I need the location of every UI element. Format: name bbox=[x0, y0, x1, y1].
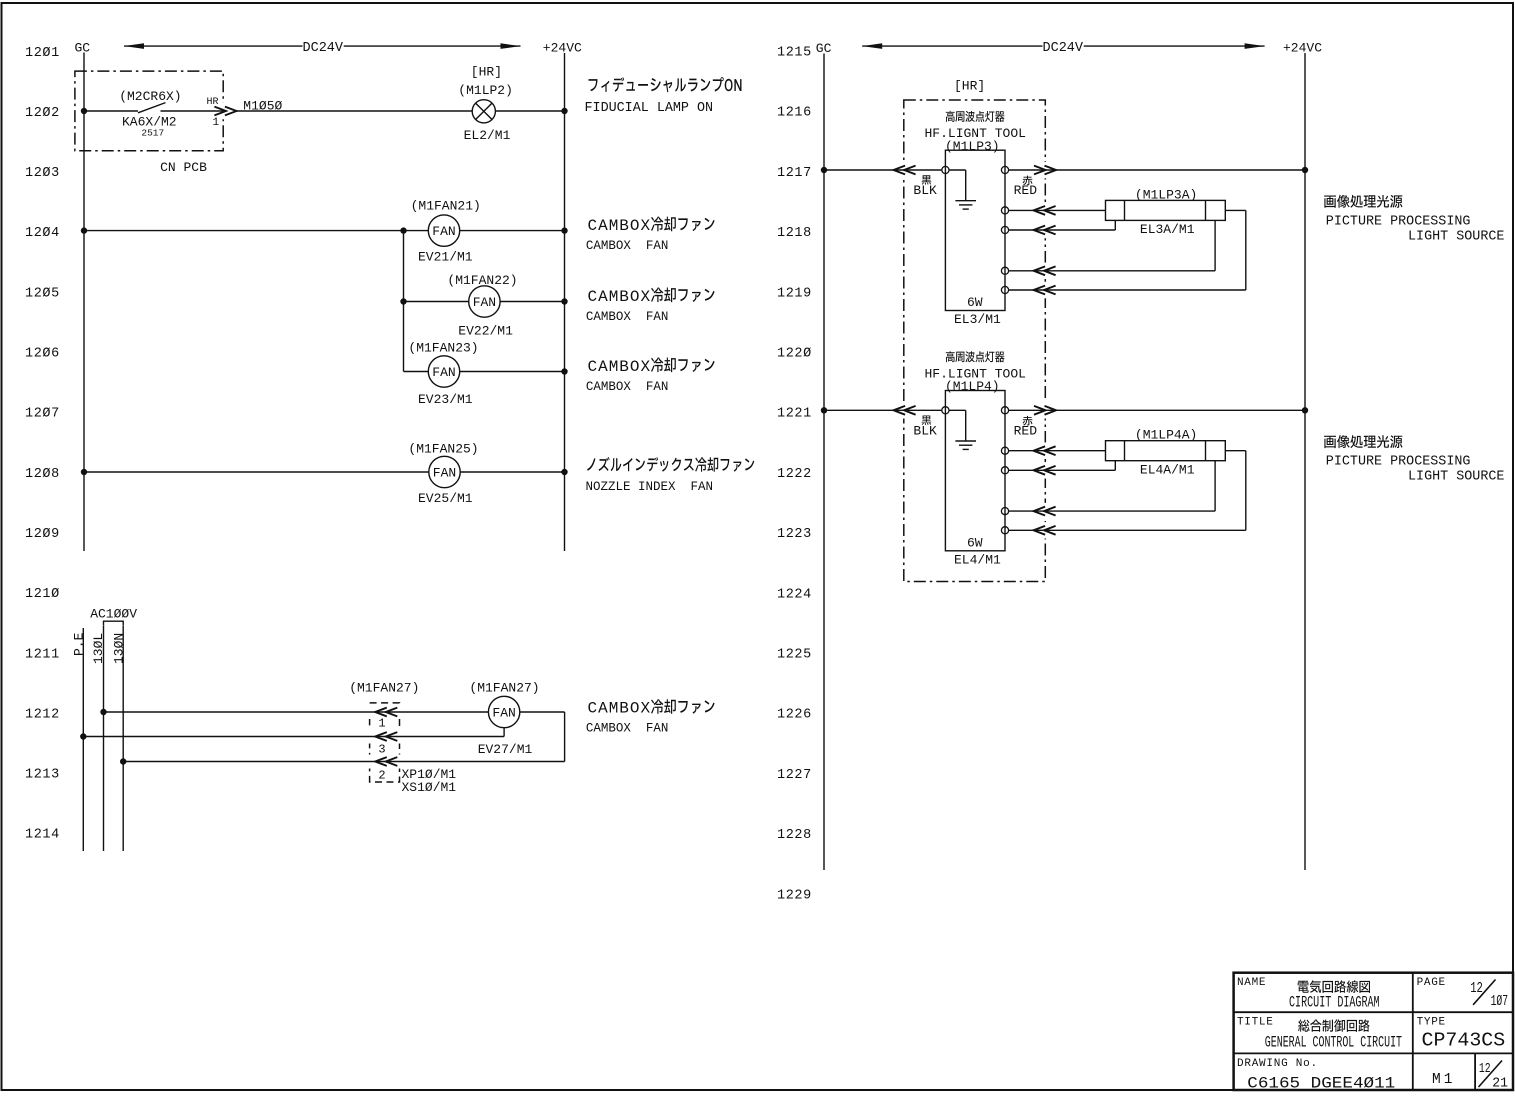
svg-text:12Ø4: 12Ø4 bbox=[25, 226, 60, 241]
label 高周波点灯器 M1LP4 bbox=[946, 351, 1005, 362]
svg-text:(M1FAN22): (M1FAN22) bbox=[447, 273, 517, 288]
HF light tool unit EL3/M1 box bbox=[945, 150, 1005, 310]
svg-text:BLK: BLK bbox=[913, 183, 937, 198]
relay contact KA6X/M2 (M2CR6X) bbox=[138, 103, 166, 113]
svg-text:NAME: NAME bbox=[1237, 977, 1266, 989]
title block 総合制御回路 bbox=[1298, 1019, 1370, 1032]
terminal RED EL3/M1 bbox=[1001, 166, 1008, 173]
svg-text:EL3A/M1: EL3A/M1 bbox=[1140, 222, 1195, 237]
svg-text:21: 21 bbox=[1492, 1076, 1508, 1092]
wire EL3/M1 terminal3 bbox=[1009, 220, 1216, 270]
svg-text:RED: RED bbox=[1014, 183, 1038, 198]
connector XP10/M1 dashed box bbox=[367, 703, 402, 782]
bracket AC100V phase group bbox=[104, 621, 124, 626]
svg-text:12Ø6: 12Ø6 bbox=[25, 347, 60, 362]
svg-text:FAN: FAN bbox=[432, 365, 455, 380]
svg-text:121Ø: 121Ø bbox=[25, 587, 60, 602]
svg-text:EV25/M1: EV25/M1 bbox=[418, 491, 473, 506]
wire EL3/M1 RED to +24VC bus bbox=[1009, 169, 1305, 171]
svg-text:TYPE: TYPE bbox=[1417, 1017, 1446, 1029]
svg-text:1213: 1213 bbox=[25, 768, 60, 783]
svg-text:CAMBOX: CAMBOX bbox=[588, 217, 652, 235]
svg-text:CAMBOX FAN: CAMBOX FAN bbox=[586, 722, 669, 736]
svg-text:2517: 2517 bbox=[141, 128, 164, 139]
wire EL3/M1 terminal1 to lamp tube bbox=[1009, 209, 1106, 211]
svg-text:1212: 1212 bbox=[25, 707, 60, 722]
svg-text:[HR]: [HR] bbox=[954, 79, 985, 94]
svg-text:CAMBOX: CAMBOX bbox=[588, 288, 652, 306]
svg-text:EV23/M1: EV23/M1 bbox=[418, 392, 473, 407]
wire P.E to fan27 bottom bbox=[83, 736, 504, 738]
svg-text:12: 12 bbox=[1470, 980, 1483, 997]
rail 130N vertical wire bbox=[122, 626, 124, 851]
title block rev slash bbox=[1479, 1061, 1503, 1088]
junction node on +24VC bus line 1208 bbox=[561, 469, 567, 475]
terminal 2 EL3/M1 bbox=[1001, 226, 1008, 233]
svg-text:1229: 1229 bbox=[777, 888, 812, 903]
wire EL4/M1 terminal1 to lamp tube bbox=[1009, 450, 1106, 452]
fan EV21/M1 (M1FAN21) bbox=[428, 215, 459, 246]
terminal 4 EL4/M1 bbox=[1001, 527, 1008, 534]
description CAMBOX冷却ファン row1206 bbox=[588, 358, 715, 376]
svg-text:(M1LP4A): (M1LP4A) bbox=[1135, 428, 1197, 443]
bus GC left vertical wire bbox=[83, 53, 85, 552]
title block page slash bbox=[1473, 980, 1495, 1005]
svg-text:DRAWING No.: DRAWING No. bbox=[1237, 1058, 1318, 1070]
junction node fan branch top bbox=[400, 227, 406, 233]
connector chevrons terminal2 EL3/M1 bbox=[1034, 226, 1046, 235]
connector chevrons terminal2 EL4/M1 bbox=[1034, 466, 1046, 475]
svg-text:1217: 1217 bbox=[777, 166, 812, 181]
svg-text:XS1Ø/M1: XS1Ø/M1 bbox=[402, 780, 457, 795]
svg-text:FAN: FAN bbox=[433, 466, 456, 481]
wire 130L to fan27 bbox=[104, 711, 489, 713]
wire GC bus to fan branch bbox=[84, 230, 428, 232]
svg-text:(M1LP2): (M1LP2) bbox=[458, 83, 513, 98]
svg-text:EV22/M1: EV22/M1 bbox=[458, 324, 513, 339]
junction node on 130N line 1213 bbox=[120, 758, 126, 764]
wire branch to fan23 bbox=[404, 371, 429, 373]
svg-text:CN PCB: CN PCB bbox=[160, 160, 207, 175]
svg-text:1227: 1227 bbox=[777, 768, 812, 783]
svg-text:1215: 1215 bbox=[777, 46, 812, 61]
connector chevrons pin 2 bbox=[375, 757, 387, 766]
terminal 1 EL4/M1 bbox=[1001, 447, 1008, 454]
fan EV27/M1 (M1FAN27) bbox=[488, 696, 519, 727]
wire GC bus to EL4/M1 BLK bbox=[824, 409, 942, 411]
terminal 1 EL3/M1 bbox=[1001, 207, 1008, 214]
svg-text:(M1FAN27): (M1FAN27) bbox=[469, 680, 539, 695]
enclosure CN PCB dash-dot box bbox=[75, 71, 226, 151]
svg-text:1214: 1214 bbox=[25, 828, 60, 843]
svg-text:M1: M1 bbox=[1432, 1072, 1455, 1088]
svg-text:1225: 1225 bbox=[777, 648, 812, 663]
svg-text:EL2/M1: EL2/M1 bbox=[464, 128, 511, 143]
svg-text:1: 1 bbox=[213, 117, 220, 129]
voltage annotation DC24V right arrow line bbox=[862, 43, 1264, 49]
svg-text:EV21/M1: EV21/M1 bbox=[418, 250, 473, 265]
svg-text:1211: 1211 bbox=[25, 647, 60, 662]
svg-text:CAMBOX: CAMBOX bbox=[588, 358, 652, 376]
svg-text:1: 1 bbox=[378, 717, 385, 731]
svg-text:TITLE: TITLE bbox=[1237, 1017, 1274, 1029]
description 画像処理光源 EL3/M1 bbox=[1324, 195, 1402, 208]
svg-text:[HR]: [HR] bbox=[471, 65, 502, 80]
wire contact to PCB edge bbox=[161, 110, 224, 112]
svg-text:DC24V: DC24V bbox=[1043, 41, 1084, 56]
svg-text:C6165 DGEE4Ø11: C6165 DGEE4Ø11 bbox=[1247, 1075, 1395, 1093]
svg-text:PICTURE PROCESSING: PICTURE PROCESSING bbox=[1326, 455, 1471, 470]
junction node on +24VC bus EL3/M1 bbox=[1302, 167, 1308, 173]
junction node on GC bus line 1204 bbox=[81, 227, 87, 233]
svg-text:12Ø9: 12Ø9 bbox=[25, 527, 60, 542]
description 画像処理光源 EL4/M1 bbox=[1324, 435, 1402, 448]
junction node on 130L line 1212 bbox=[100, 709, 106, 715]
wire GC bus to contact bbox=[84, 110, 138, 112]
wire fan27 to right loop bbox=[520, 711, 565, 713]
svg-text:1216: 1216 bbox=[777, 106, 812, 121]
connector chevrons pin 1 bbox=[375, 708, 387, 717]
wire EL4/M1 terminal2 bbox=[1009, 461, 1116, 471]
terminal BLK EL4/M1 bbox=[942, 407, 949, 414]
svg-text:EV27/M1: EV27/M1 bbox=[478, 742, 533, 757]
fan EV25/M1 (M1FAN25) bbox=[429, 456, 460, 487]
svg-text:1Ø7: 1Ø7 bbox=[1491, 993, 1509, 1010]
junction node on +24VC bus line 1202 bbox=[561, 108, 567, 114]
svg-text:12Ø8: 12Ø8 bbox=[25, 467, 60, 482]
bus +24VC right vertical wire bbox=[1304, 53, 1306, 870]
terminal 3 EL3/M1 bbox=[1001, 267, 1008, 274]
svg-text:PAGE: PAGE bbox=[1417, 977, 1446, 989]
wire fan branch vertical bbox=[403, 231, 405, 372]
label 赤 EL3/M1 bbox=[1023, 176, 1033, 186]
svg-text:12Ø2: 12Ø2 bbox=[25, 106, 60, 121]
description CAMBOX冷却ファン row1204 bbox=[588, 217, 715, 235]
svg-text:13ØN: 13ØN bbox=[112, 633, 127, 664]
svg-text:NOZZLE INDEX FAN: NOZZLE INDEX FAN bbox=[586, 480, 714, 494]
terminal RED EL4/M1 bbox=[1001, 407, 1008, 414]
connector chevrons terminal4 EL3/M1 bbox=[1034, 286, 1046, 295]
svg-text:(M1FAN23): (M1FAN23) bbox=[408, 340, 478, 355]
svg-text:1222: 1222 bbox=[777, 467, 812, 482]
svg-text:CAMBOX: CAMBOX bbox=[588, 700, 652, 718]
wire EL3/M1 terminal4 bbox=[1009, 210, 1246, 290]
bus +24VC left vertical wire bbox=[564, 53, 566, 551]
svg-text:DC24V: DC24V bbox=[303, 41, 344, 56]
junction node on +24VC bus line 1206 bbox=[561, 368, 567, 374]
svg-text:CAMBOX FAN: CAMBOX FAN bbox=[586, 239, 669, 253]
wire fan21 to +24VC bus bbox=[460, 230, 565, 232]
svg-text:FAN: FAN bbox=[492, 706, 515, 721]
svg-text:1223: 1223 bbox=[777, 527, 812, 542]
wire EL4/M1 RED to +24VC bus bbox=[1009, 409, 1305, 411]
svg-text:LIGHT SOURCE: LIGHT SOURCE bbox=[1408, 229, 1504, 244]
connector chevrons RED EL3/M1 bbox=[1034, 166, 1046, 175]
rail 130L vertical wire bbox=[103, 626, 105, 851]
svg-text:6W: 6W bbox=[967, 295, 983, 310]
wire fan25 to +24VC bus bbox=[460, 471, 564, 473]
svg-text:(M1LP4): (M1LP4) bbox=[945, 379, 1000, 394]
lamp EL2/M1 (M1LP2) bbox=[472, 100, 495, 123]
svg-text:(M1LP3): (M1LP3) bbox=[945, 139, 1000, 154]
fan EV23/M1 (M1FAN23) bbox=[428, 356, 459, 387]
terminal 4 EL3/M1 bbox=[1001, 286, 1008, 293]
connector chevrons BLK EL3/M1 bbox=[894, 166, 906, 175]
svg-text:12Ø3: 12Ø3 bbox=[25, 166, 60, 181]
svg-text:CAMBOX FAN: CAMBOX FAN bbox=[586, 310, 669, 324]
enclosure HR dash-dot box bbox=[901, 100, 1048, 582]
description CAMBOX冷却ファン row1205 bbox=[588, 288, 715, 306]
lamp tube EL3A/M1 (M1LP3A) bbox=[1106, 200, 1226, 220]
junction node on +24VC bus line 1204 bbox=[561, 227, 567, 233]
svg-text:(M1FAN21): (M1FAN21) bbox=[411, 198, 481, 213]
svg-text:3: 3 bbox=[378, 742, 385, 756]
svg-text:GENERAL CONTROL CIRCUIT: GENERAL CONTROL CIRCUIT bbox=[1265, 1033, 1402, 1051]
label 黒 EL4/M1 bbox=[922, 416, 932, 425]
svg-text:122Ø: 122Ø bbox=[777, 347, 812, 362]
svg-text:1221: 1221 bbox=[777, 407, 812, 422]
svg-text:CAMBOX FAN: CAMBOX FAN bbox=[586, 380, 669, 394]
svg-text:FAN: FAN bbox=[473, 295, 496, 310]
svg-text:EL4/M1: EL4/M1 bbox=[954, 552, 1001, 567]
connector chevrons pin 3 bbox=[375, 732, 387, 741]
svg-text:FAN: FAN bbox=[432, 224, 455, 239]
label 赤 EL4/M1 bbox=[1023, 416, 1033, 426]
svg-text:GC: GC bbox=[75, 40, 91, 55]
bus GC right vertical wire bbox=[823, 54, 825, 871]
svg-text:LIGHT SOURCE: LIGHT SOURCE bbox=[1408, 470, 1504, 485]
connector chevrons HR pin (right) bbox=[214, 107, 226, 116]
svg-text:+24VC: +24VC bbox=[1283, 41, 1322, 56]
svg-text:+24VC: +24VC bbox=[543, 41, 582, 56]
rail P.E vertical wire bbox=[82, 628, 84, 851]
connector chevrons terminal4 EL4/M1 bbox=[1034, 526, 1046, 535]
svg-text:1218: 1218 bbox=[777, 226, 812, 241]
svg-text:6W: 6W bbox=[967, 535, 983, 550]
junction node fan branch line 1205 bbox=[400, 298, 406, 304]
HF light tool unit EL4/M1 box bbox=[945, 391, 1005, 551]
title block 電気回路線図 bbox=[1298, 980, 1370, 993]
connector chevrons terminal1 EL4/M1 bbox=[1034, 446, 1046, 455]
connector chevrons terminal1 EL3/M1 bbox=[1034, 206, 1046, 215]
junction node on +24VC bus line 1205 bbox=[561, 298, 567, 304]
svg-text:2: 2 bbox=[378, 768, 385, 782]
svg-text:1226: 1226 bbox=[777, 708, 812, 723]
svg-text:P.E: P.E bbox=[72, 632, 87, 656]
wire 130N to right loop bbox=[123, 761, 564, 763]
svg-text:BLK: BLK bbox=[913, 424, 937, 439]
junction node on P.E line bbox=[80, 733, 86, 739]
svg-text:RED: RED bbox=[1014, 424, 1038, 439]
wire fan22 to +24VC bus bbox=[500, 301, 564, 303]
svg-text:(M1FAN27): (M1FAN27) bbox=[349, 680, 419, 695]
junction node on GC bus EL4/M1 bbox=[821, 407, 827, 413]
svg-text:FIDUCIAL LAMP ON: FIDUCIAL LAMP ON bbox=[585, 101, 714, 116]
junction node on GC bus line 1202 bbox=[81, 108, 87, 114]
wire GC bus to EL3/M1 BLK bbox=[824, 169, 942, 171]
wire fan27 bottom drop bbox=[503, 728, 505, 737]
junction node on +24VC bus EL4/M1 bbox=[1302, 407, 1308, 413]
ground symbol EL4/M1 bbox=[955, 441, 976, 449]
wire right loop vertical bbox=[564, 712, 566, 762]
description CAMBOX冷却ファン row1212 bbox=[588, 699, 715, 717]
wire M1050 to lamp bbox=[236, 110, 472, 112]
svg-text:CP743CS: CP743CS bbox=[1422, 1030, 1506, 1052]
terminal BLK EL3/M1 bbox=[942, 166, 949, 173]
wire GC bus to fan25 bbox=[84, 471, 429, 473]
connector chevrons BLK EL4/M1 bbox=[894, 406, 906, 415]
junction node on GC bus EL3/M1 bbox=[821, 167, 827, 173]
lamp tube EL4A/M1 (M1LP4A) bbox=[1106, 441, 1226, 461]
description ノズルインデックス冷却ファン bbox=[587, 457, 754, 472]
fan EV22/M1 (M1FAN22) bbox=[469, 286, 500, 317]
wire EL4/M1 terminal3 bbox=[1009, 461, 1216, 511]
connector chevrons RED EL4/M1 bbox=[1034, 406, 1046, 415]
terminal 2 EL4/M1 bbox=[1001, 467, 1008, 474]
label 黒 EL3/M1 bbox=[922, 175, 932, 184]
svg-text:AC1ØØV: AC1ØØV bbox=[90, 607, 137, 622]
svg-text:M1Ø5Ø: M1Ø5Ø bbox=[243, 99, 282, 114]
svg-text:(M1FAN25): (M1FAN25) bbox=[408, 442, 478, 457]
svg-text:12Ø7: 12Ø7 bbox=[25, 407, 60, 422]
svg-text:12Ø5: 12Ø5 bbox=[25, 286, 60, 301]
svg-text:EL3/M1: EL3/M1 bbox=[954, 312, 1001, 327]
svg-text:(M2CR6X): (M2CR6X) bbox=[119, 89, 181, 104]
svg-text:1228: 1228 bbox=[777, 828, 812, 843]
ground wire inside EL4/M1 bbox=[949, 410, 966, 441]
ground symbol EL3/M1 bbox=[955, 201, 976, 209]
svg-text:CIRCUIT DIAGRAM: CIRCUIT DIAGRAM bbox=[1289, 994, 1380, 1012]
wire EL4/M1 terminal4 bbox=[1009, 451, 1246, 531]
voltage annotation DC24V left arrow line bbox=[124, 43, 521, 49]
ground wire inside EL3/M1 bbox=[949, 170, 966, 201]
wire fan23 to +24VC bus bbox=[460, 371, 565, 373]
svg-text:(M1LP3A): (M1LP3A) bbox=[1135, 187, 1197, 202]
wire EL3/M1 terminal2 bbox=[1009, 220, 1116, 230]
title block table bbox=[1234, 973, 1513, 1090]
svg-text:PICTURE PROCESSING: PICTURE PROCESSING bbox=[1326, 214, 1471, 229]
connector chevrons terminal3 EL4/M1 bbox=[1034, 507, 1046, 516]
terminal 3 EL4/M1 bbox=[1001, 508, 1008, 515]
label 高周波点灯器 M1LP3 bbox=[946, 111, 1005, 122]
svg-text:1224: 1224 bbox=[777, 587, 812, 602]
junction node on GC bus line 1208 bbox=[81, 469, 87, 475]
description フィデューシャルランプON bbox=[589, 77, 742, 92]
connector chevrons terminal3 EL3/M1 bbox=[1034, 266, 1046, 275]
svg-text:12Ø1: 12Ø1 bbox=[25, 46, 60, 61]
svg-text:13ØL: 13ØL bbox=[91, 633, 106, 664]
wire lamp to +24VC bus bbox=[495, 110, 564, 112]
wire branch to fan22 bbox=[404, 301, 469, 303]
svg-text:EL4A/M1: EL4A/M1 bbox=[1140, 463, 1195, 478]
svg-text:1219: 1219 bbox=[777, 286, 812, 301]
